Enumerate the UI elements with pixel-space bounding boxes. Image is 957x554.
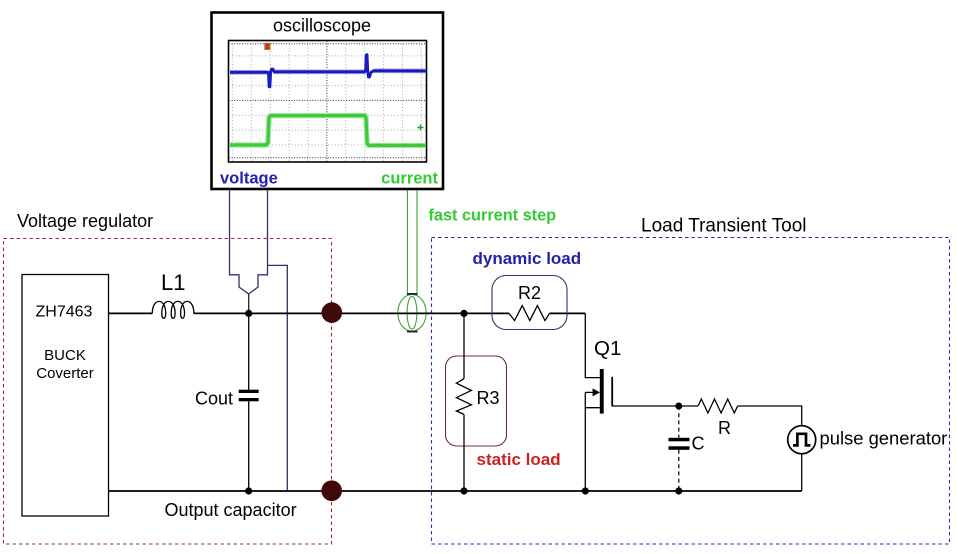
svg-text:voltage: voltage <box>220 170 278 188</box>
junction: output node (maroon) <box>322 302 343 323</box>
wire: pulse generator to bottom rail <box>801 454 803 491</box>
wire: R3 bottom <box>463 414 465 491</box>
resistor R3 zigzag <box>456 379 471 415</box>
junction: C bottom <box>675 487 682 494</box>
svg-text:BUCK: BUCK <box>44 347 86 364</box>
junction: gate RC node <box>675 403 682 410</box>
voltage probe ground lead wire <box>268 265 288 491</box>
transistor Q1 gate plate <box>611 377 613 407</box>
scope graticule grid <box>229 41 426 162</box>
scope graticule center axes with ticks <box>229 41 426 162</box>
oscilloscope box U-SCOPE <box>212 13 444 190</box>
blue voltage trace <box>230 55 426 87</box>
junction: Q1 source bottom <box>582 487 589 494</box>
wire: bottom rail <box>109 490 802 492</box>
green current trace <box>230 116 426 146</box>
svg-text:Load Transient Tool: Load Transient Tool <box>641 216 807 237</box>
voltage probe tip wire <box>248 294 250 313</box>
svg-text:Voltage regulator: Voltage regulator <box>17 211 153 231</box>
scope trigger marker (orange) <box>264 43 270 50</box>
current probe leads (green) <box>407 191 417 296</box>
transistor Q1 source wire <box>585 408 600 491</box>
capacitor C dashed lead lower <box>678 450 680 491</box>
svg-text:current: current <box>381 170 438 188</box>
svg-text:Output capacitor: Output capacitor <box>165 500 297 520</box>
capacitor Cout plates <box>239 390 259 402</box>
svg-text:fast current step: fast current step <box>429 207 557 225</box>
junction: load node top <box>460 310 467 317</box>
junction: output return (maroon) <box>321 480 342 501</box>
wire: R to pulse generator <box>738 406 802 426</box>
voltage probe body <box>230 191 268 295</box>
current probe tick marks <box>407 294 418 332</box>
junction: R3 bottom <box>460 487 467 494</box>
svg-text:ZH7463: ZH7463 <box>36 304 93 321</box>
resistor R3 rounded box <box>446 356 507 446</box>
svg-text:C: C <box>692 434 705 454</box>
wire: R2 right to corner <box>550 312 586 314</box>
transistor Q1 drain wire <box>585 313 600 377</box>
svg-text:R2: R2 <box>518 283 541 303</box>
blue voltage trace halo <box>230 71 426 73</box>
current probe clamp ellipses <box>398 295 426 332</box>
svg-text:dynamic load: dynamic load <box>473 249 582 268</box>
resistor R zigzag <box>698 399 738 413</box>
green current trace halo <box>230 116 426 146</box>
svg-text:Coverter: Coverter <box>36 365 94 382</box>
Load Transient Tool dashed box <box>432 238 950 545</box>
Voltage regulator dashed box <box>4 239 332 545</box>
svg-text:R3: R3 <box>477 388 500 408</box>
transistor Q1 channel bar <box>600 369 604 414</box>
capacitor Cout branch wire upper <box>248 313 250 389</box>
svg-text:Q1: Q1 <box>594 337 621 360</box>
pulse generator source <box>788 426 816 454</box>
svg-text:R: R <box>718 418 731 438</box>
capacitor C plates <box>669 438 690 450</box>
junction: Cout bottom <box>245 487 252 494</box>
svg-text:Cout: Cout <box>195 389 233 409</box>
svg-text:static load: static load <box>477 450 561 469</box>
transistor Q1 body arrow <box>585 388 600 396</box>
regulator block U1 ZH7463 <box>22 275 109 517</box>
wire: regulator output to L1 <box>109 312 153 314</box>
inductor L1 <box>152 301 195 318</box>
junction: probe tip node <box>245 310 252 317</box>
svg-text:L1: L1 <box>161 270 185 295</box>
capacitor Cout branch wire lower <box>248 401 250 491</box>
wire: gate to RC node <box>612 405 698 407</box>
svg-text:oscilloscope: oscilloscope <box>273 16 371 36</box>
svg-text:pulse generator: pulse generator <box>820 428 948 449</box>
resistor R2 zigzag <box>509 306 550 321</box>
green edge marker on right of screen <box>418 125 424 131</box>
resistor R2 rounded box <box>492 276 567 330</box>
wire: R3 top <box>463 313 465 378</box>
wire: top rail L1 to Q1 drain corner <box>194 312 509 314</box>
scope screen <box>229 41 427 163</box>
capacitor C dashed lead upper <box>678 406 680 438</box>
